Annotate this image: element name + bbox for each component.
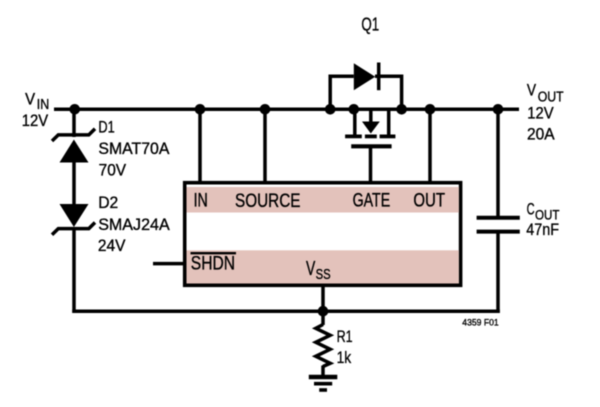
wire R1 top [321, 311, 325, 325]
diode D1 body [60, 140, 89, 163]
svg-text:C: C [527, 200, 535, 218]
node VSS/R1 junction [318, 306, 329, 317]
op-amp U1 IC body [185, 183, 461, 286]
svg-text:20A: 20A [527, 124, 555, 143]
capacitor COUT bottom plate [477, 230, 520, 234]
svg-text:4359 F01: 4359 F01 [462, 317, 498, 327]
IC bottom pink band [187, 250, 459, 283]
node diode loop right junction [396, 104, 407, 115]
svg-text:SOURCE: SOURCE [235, 191, 301, 212]
node Q1 source junction [349, 104, 360, 115]
svg-text:24V: 24V [98, 236, 126, 255]
wire SHDN stub [153, 262, 185, 266]
wire COUT to bottom rail [496, 231, 500, 313]
wire between D1 and D2 [72, 161, 76, 205]
node OUT pin junction [425, 104, 436, 115]
svg-text:V: V [527, 82, 536, 100]
wire body diode loop [330, 76, 401, 108]
node VIN junction [69, 104, 80, 115]
Q1 gate plate [351, 144, 391, 148]
resistor R1 zigzag [316, 325, 330, 367]
svg-text:D1: D1 [98, 118, 114, 137]
svg-text:SHDN: SHDN [191, 252, 235, 274]
Q1 body arrow stem [369, 109, 373, 123]
svg-text:D2: D2 [98, 193, 118, 212]
diode D1 cathode bar with hooks [52, 129, 95, 141]
svg-text:Q1: Q1 [361, 13, 379, 34]
wire IN pin [198, 109, 202, 184]
wire VOUT branch down to COUT [496, 109, 500, 219]
svg-text:47nF: 47nF [526, 220, 559, 239]
svg-text:GATE: GATE [353, 191, 391, 212]
svg-text:SS: SS [316, 267, 331, 283]
svg-text:1k: 1k [337, 348, 352, 367]
svg-text:V: V [25, 91, 35, 109]
diode D2 body [60, 204, 89, 227]
Q1 body arrow head [362, 122, 380, 134]
svg-text:SMAT70A: SMAT70A [98, 139, 170, 158]
wire D2 to bottom rail [72, 228, 76, 313]
transistor Q1 body diode [354, 63, 375, 90]
node diode loop left junction [325, 104, 336, 115]
wire OUT pin [428, 109, 432, 184]
node IN pin junction [195, 104, 206, 115]
wire GATE pin from Q1 gate [369, 146, 373, 184]
Q1 source lead [353, 109, 357, 136]
diode D2 cathode bar with hooks [52, 223, 95, 235]
svg-text:R1: R1 [337, 327, 353, 346]
svg-text:70V: 70V [99, 160, 127, 179]
svg-text:OUT: OUT [413, 191, 445, 212]
wire main top rail VIN to VOUT [54, 108, 519, 112]
node SOURCE pin junction [260, 104, 271, 115]
IC top pink band [187, 187, 459, 213]
svg-text:V: V [306, 258, 316, 280]
svg-text:12V: 12V [527, 104, 554, 123]
svg-text:SMAJ24A: SMAJ24A [98, 215, 170, 234]
Q1 body diode cathode bar [377, 63, 381, 91]
wire bottom rail [72, 309, 500, 313]
node COUT junction [493, 104, 504, 115]
svg-text:IN: IN [194, 191, 208, 212]
wire D1/D2 branch from VIN node [72, 109, 76, 137]
wire SOURCE pin [263, 109, 267, 184]
wire VSS pin to bottom rail [321, 285, 325, 313]
Q1 contact bars [345, 134, 362, 138]
ground symbol [309, 375, 338, 379]
svg-text:12V: 12V [22, 111, 49, 130]
capacitor COUT top plate [477, 216, 520, 220]
wire R1 to ground [321, 366, 325, 377]
Q1 drain lead [387, 109, 391, 136]
